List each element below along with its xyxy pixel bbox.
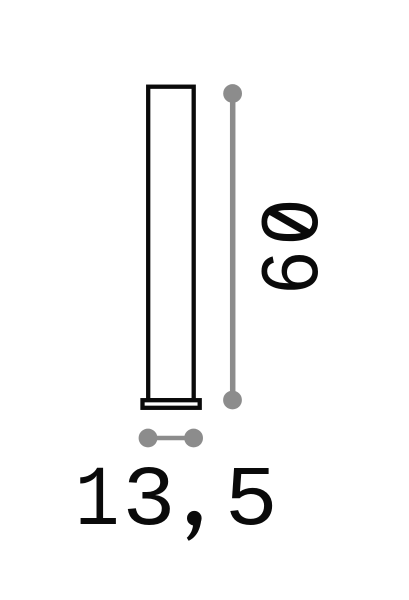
vertical dimension line <box>230 94 236 401</box>
slash of zero in 60 <box>268 210 311 235</box>
base flange <box>143 400 200 408</box>
dimension label 60 <box>245 200 334 294</box>
lamp post body <box>148 87 194 401</box>
comma <box>187 511 202 541</box>
horizontal dimension right dot <box>184 429 203 448</box>
vertical dimension bottom dot <box>223 391 242 410</box>
horizontal dimension line <box>148 436 194 440</box>
horizontal dimension left dot <box>139 429 158 448</box>
svg-text:5: 5 <box>225 454 278 550</box>
svg-text:3: 3 <box>122 455 175 551</box>
dimension label 13,5 <box>75 454 278 551</box>
svg-text:6: 6 <box>246 252 334 294</box>
vertical dimension top dot <box>223 84 242 103</box>
svg-text:1: 1 <box>75 454 120 550</box>
